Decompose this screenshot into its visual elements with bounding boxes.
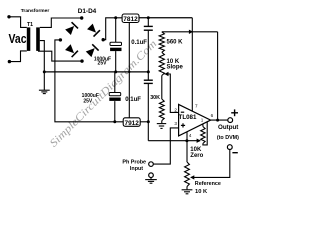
svg-text:0.1uF: 0.1uF — [131, 40, 147, 46]
node bias junction — [185, 139, 188, 142]
wire +12V down to op-amp pin 7 — [191, 18, 193, 112]
node reg ground — [128, 71, 130, 73]
wire C1 top lead — [115, 18, 117, 43]
capacitor C3 0.1uF — [144, 26, 153, 30]
wire center tap to ground rail — [40, 41, 45, 72]
svg-text:7: 7 — [195, 104, 198, 109]
wire secondary top to bridge AC1 — [40, 18, 82, 27]
wire feedback down to output — [217, 32, 219, 120]
node bridge top — [80, 16, 83, 19]
svg-text:Reference: Reference — [195, 181, 221, 187]
wire zero pot to pin 1 — [202, 124, 204, 126]
node -12V — [147, 120, 150, 123]
node rail right — [147, 70, 150, 73]
wire feedback top — [162, 31, 218, 33]
wire bridge plus to 7812 input — [103, 18, 122, 40]
wire C1 bottom lead — [115, 51, 117, 72]
node C3 top — [147, 16, 150, 19]
svg-text:T1: T1 — [27, 22, 33, 28]
potentiometer 10K Zero — [201, 127, 205, 144]
slope pot wiper arrow — [164, 72, 168, 76]
ground probe — [145, 179, 157, 181]
wire ground rail — [44, 71, 148, 73]
node C2 bottom — [113, 120, 116, 123]
node output feedback — [216, 119, 219, 122]
capacitor C1 1000uF 25V — [110, 42, 122, 45]
diode D1 (upper-left) — [65, 22, 78, 35]
wire 7812 output +12V rail — [139, 17, 192, 19]
terminal output plus — [228, 118, 233, 123]
svg-text:4: 4 — [189, 133, 192, 138]
node rail left — [43, 70, 46, 73]
svg-text:7812: 7812 — [123, 16, 138, 23]
wire op-amp output — [211, 119, 228, 121]
svg-text:Vac: Vac — [9, 32, 27, 46]
svg-text:Zero: Zero — [190, 153, 203, 159]
svg-text:30K: 30K — [150, 95, 160, 101]
terminal probe input — [149, 162, 154, 167]
svg-text:(to DVM): (to DVM) — [217, 135, 239, 141]
svg-text:6: 6 — [211, 113, 214, 118]
op-amp U1 TL081 — [179, 104, 211, 135]
wire secondary bottom to bridge AC2 — [38, 51, 82, 61]
wire C3 bottom lead — [147, 31, 149, 72]
wire slope wiper to pin 2 — [164, 74, 178, 112]
svg-text:7912: 7912 — [124, 120, 139, 127]
ground 30K — [157, 123, 166, 125]
wire bridge minus to 7912 input — [55, 40, 123, 122]
diode D2 (upper-right) — [87, 23, 100, 36]
svg-text:Slope: Slope — [167, 65, 184, 71]
svg-text:TL081: TL081 — [179, 114, 197, 121]
wire probe input to pin 3 — [153, 128, 178, 164]
svg-text:Transformer: Transformer — [21, 8, 50, 14]
terminal output minus — [227, 145, 232, 150]
wire regulator ground pins — [128, 23, 130, 118]
transformer T1 — [27, 27, 40, 51]
node Vac bottom — [8, 60, 11, 63]
diode D4 (lower-right) — [85, 44, 98, 57]
potentiometer Reference 10K — [185, 162, 190, 187]
ground main (center tap) — [43, 72, 45, 90]
wire 30K to ground — [161, 121, 163, 124]
reference wiper arrow — [190, 175, 194, 179]
node Vac top — [7, 15, 10, 18]
svg-text:560 K: 560 K — [167, 40, 184, 46]
wire 30K to slope pot — [161, 76, 163, 100]
svg-text:Ph Probe: Ph Probe — [122, 160, 146, 166]
svg-text:Input: Input — [130, 166, 143, 172]
regulator 7912 — [123, 118, 140, 127]
ground reference — [182, 189, 193, 191]
feedback arrow at +12V crossing — [189, 30, 193, 34]
node bridge left — [59, 38, 62, 41]
potentiometer 10K Slope — [159, 52, 164, 75]
svg-text:2: 2 — [174, 108, 177, 113]
wire -12V bias line — [148, 140, 200, 142]
wire op-amp pin 4 — [186, 132, 188, 141]
wire -12V to bias line — [147, 122, 149, 141]
wire C4 top lead — [147, 72, 149, 80]
svg-text:25V: 25V — [98, 61, 108, 67]
wire C3 top lead — [147, 18, 149, 26]
capacitor C2 1000uF 25V — [109, 93, 121, 96]
svg-text:D1-D4: D1-D4 — [78, 8, 97, 15]
node bridge right — [102, 38, 105, 41]
wire Vac bottom lead — [9, 51, 26, 62]
svg-text:Output: Output — [218, 124, 238, 131]
svg-text:25V: 25V — [83, 98, 93, 104]
node bridge bottom — [80, 59, 83, 62]
regulator 7812 — [122, 14, 139, 23]
zero pot wiper arrow — [197, 139, 201, 143]
svg-text:0.1uF: 0.1uF — [125, 97, 141, 103]
wire probe ground terminal — [150, 178, 152, 180]
terminal probe ground — [149, 173, 154, 178]
capacitor C4 0.1uF — [144, 80, 153, 83]
resistor 30K — [159, 99, 164, 121]
wire C2 bottom lead — [114, 101, 116, 122]
svg-text:10 K: 10 K — [195, 189, 208, 195]
resistor 560K — [159, 32, 164, 53]
node C1 bottom — [114, 70, 117, 73]
wire reference to ground — [186, 187, 188, 190]
wire zero pot to pin 5 — [203, 122, 207, 145]
wire C2 top lead — [114, 72, 116, 93]
wire 7912 output — [140, 121, 148, 123]
wire reference top lead — [186, 141, 188, 162]
wire C4 bottom lead to -12V — [147, 84, 149, 122]
diode D3 (lower-left) — [65, 44, 78, 57]
wire Vac top lead — [9, 17, 27, 28]
wire output minus terminal to reference — [191, 150, 230, 178]
node C1 top — [114, 16, 117, 19]
svg-text:3: 3 — [174, 121, 177, 126]
